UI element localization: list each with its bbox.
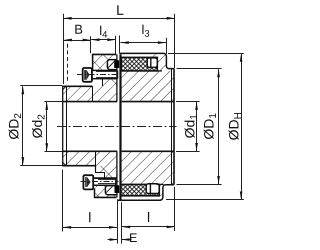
white strip below lower rubber	[118, 196, 160, 199]
dim Od2	[45, 101, 63, 103]
screw S2 shaft	[93, 177, 116, 179]
dim l3	[119, 36, 121, 54]
right hub outer profile top	[120, 53, 174, 68]
rubber bottom edge ext top	[157, 70, 162, 72]
screw S1 shaft	[92, 70, 118, 72]
screw S1 (top) head	[83, 68, 92, 82]
rubber element top	[121, 57, 157, 71]
clamping ring upper body hatch	[93, 54, 118, 86]
right hub body upper hatch	[122, 71, 175, 102]
white strip above rubber	[121, 54, 147, 57]
rubber element bottom	[121, 184, 160, 195]
ring/sleeve boundary bottom	[95, 151, 97, 165]
svg-text:L: L	[116, 2, 124, 18]
dim ODH	[168, 53, 244, 55]
screw S2 axis	[81, 181, 119, 183]
svg-text:l: l	[147, 209, 150, 225]
clamping band section bottom (solid)	[115, 185, 120, 193]
svg-text:E: E	[129, 231, 137, 245]
dim L	[63, 14, 65, 84]
screw S2 (bottom) head	[83, 175, 93, 189]
clamping band section top (solid)	[114, 60, 119, 68]
dim l left	[62, 170, 64, 232]
rubber slots bottom	[146, 184, 159, 194]
band pocket bottom	[105, 186, 117, 195]
rubber slots top	[147, 58, 157, 68]
right hub outer profile bottom	[118, 185, 175, 201]
dim Od1	[176, 101, 200, 103]
channel edges top	[90, 69, 108, 71]
left hub H2 upper ring hatch	[63, 86, 117, 101]
screw S1 axis	[77, 74, 120, 76]
screw channel bottom	[94, 178, 118, 186]
dim B	[67, 44, 69, 83]
dim E	[117, 199, 119, 243]
pocket hatch line top	[107, 61, 114, 68]
ring/sleeve boundary top	[92, 86, 94, 101]
dim l right	[174, 187, 176, 231]
main axis center line	[57, 126, 177, 128]
left hub bore	[62, 101, 117, 103]
left hub corner chamfers	[63, 86, 66, 89]
rubber top edge ext bottom	[157, 183, 164, 185]
dim OD2	[20, 85, 62, 87]
pocket hatch line bottom	[106, 186, 113, 193]
svg-text:l: l	[88, 209, 91, 225]
screw channel top	[90, 70, 117, 78]
right hub body lower hatch	[122, 151, 175, 184]
right hub bore	[122, 101, 174, 103]
right hub right face	[173, 69, 175, 185]
sleeve top outline	[92, 54, 94, 70]
band pocket top	[107, 60, 117, 70]
clamping ring lower body hatch	[96, 166, 118, 198]
left hub outline	[62, 86, 64, 166]
svg-text:B: B	[74, 22, 83, 37]
gap E column	[118, 53, 120, 102]
left hub H2 lower ring hatch	[63, 151, 117, 166]
sleeve bottom outline	[94, 188, 96, 197]
dim OD1	[177, 68, 222, 70]
right hub flange face	[119, 54, 121, 200]
channel edges bottom	[94, 177, 118, 179]
dim l4	[115, 36, 117, 55]
